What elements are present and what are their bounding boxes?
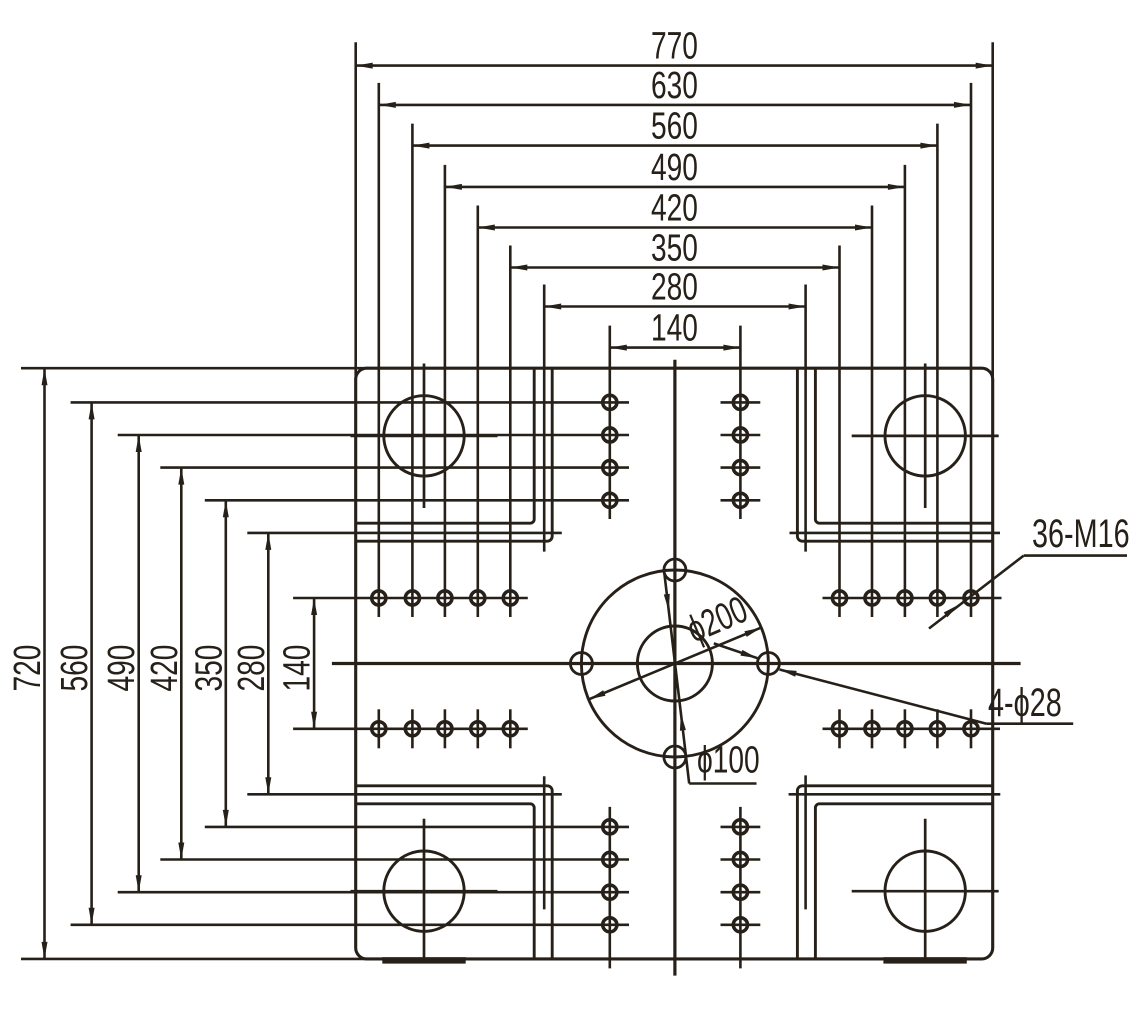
svg-text:420: 420 <box>651 188 698 230</box>
small circle E <box>757 653 779 675</box>
right group row line bottom <box>823 727 1001 730</box>
hole M16 top group right col r4 <box>721 493 761 507</box>
svg-text:630: 630 <box>651 65 698 107</box>
dimension 420 vertical label <box>144 645 186 692</box>
dimension 770 label <box>651 26 698 68</box>
corner pocket BL outline <box>356 786 553 959</box>
dimension 350 vertical <box>205 500 629 827</box>
hole M16 top group right col r3 <box>721 461 761 475</box>
svg-text:720: 720 <box>7 645 49 692</box>
dimension 280 horizontal <box>544 285 805 552</box>
corner pocket TR outline <box>797 368 992 541</box>
hole M16 right group bottom row c5 <box>964 709 978 748</box>
tie-bar hole crosshair TR <box>852 364 999 509</box>
dimension 770 horizontal <box>356 42 993 381</box>
tie-bar hole crosshair BL <box>351 819 498 964</box>
hole M16 bottom group left col r3 <box>603 885 617 899</box>
label 36-M16 text <box>1032 511 1130 556</box>
hole M16 bottom group left col r1 <box>603 820 617 834</box>
hole M16 right group bottom row c2 <box>865 709 879 748</box>
svg-text:280: 280 <box>651 267 698 309</box>
hole M16 left group bottom row c1 <box>372 709 386 748</box>
label 4-D28 text <box>988 680 1062 725</box>
vertical centerline <box>673 360 676 976</box>
dimension 280 vertical label <box>231 645 273 692</box>
tie-bar hole circle BL <box>384 851 464 931</box>
dimension 280 vertical <box>247 533 562 794</box>
tie-bar hole crosshair TL <box>351 364 498 509</box>
foot tab bottom-right <box>883 957 966 963</box>
tie-bar hole circle TR <box>885 396 965 476</box>
svg-text:350: 350 <box>651 228 698 270</box>
hole M16 left group bottom row c2 <box>405 709 419 748</box>
dimension 490 vertical <box>118 435 629 892</box>
svg-text:4-ϕ28: 4-ϕ28 <box>988 680 1062 725</box>
dimension D200 diameter line <box>589 628 762 700</box>
dimension 350 vertical label <box>188 645 230 692</box>
dimension 140 label <box>651 308 698 350</box>
tie-bar hole circle BR <box>885 851 965 931</box>
label 36-M16 leader <box>929 556 1127 629</box>
svg-text:140: 140 <box>651 308 698 350</box>
svg-text:560: 560 <box>54 645 96 692</box>
horizontal centerline <box>332 662 1021 665</box>
center hole D100 <box>637 626 712 701</box>
svg-text:420: 420 <box>144 645 186 692</box>
dimension 420 horizontal <box>478 206 872 618</box>
pocket centerline stub TR horizontal <box>790 532 1001 535</box>
svg-text:490: 490 <box>101 645 143 692</box>
small circle N <box>664 559 686 581</box>
svg-text:490: 490 <box>651 147 698 189</box>
right group row line top <box>823 597 1002 600</box>
svg-text:140: 140 <box>277 645 319 692</box>
locating ring circle D200 bolt circle <box>581 570 768 757</box>
small circle W <box>570 653 592 675</box>
dimension 490 label <box>651 147 698 189</box>
dimension 630 label <box>651 65 698 107</box>
hole M16 right group bottom row c1 <box>832 709 846 748</box>
hole M16 right group bottom row c4 <box>930 709 944 748</box>
dimension 720 vertical <box>21 368 370 959</box>
svg-text:ϕ100: ϕ100 <box>697 740 760 782</box>
dimension 420 label <box>651 188 698 230</box>
dimension 490 vertical label <box>101 645 143 692</box>
svg-text:350: 350 <box>188 645 230 692</box>
svg-text:36-M16: 36-M16 <box>1032 511 1130 556</box>
hole M16 bottom group right col r1 <box>721 820 761 834</box>
hole M16 top group left col r1 <box>603 395 617 409</box>
hole M16 top group left col r3 <box>603 461 617 475</box>
dimension 140 vertical label <box>277 645 319 692</box>
hole M16 right group top row c2 <box>865 591 879 605</box>
svg-text:770: 770 <box>651 26 698 68</box>
hole M16 left group top row c1 <box>372 591 386 605</box>
pocket centerline stub BL <box>543 776 546 909</box>
hole M16 bottom group left col r4 <box>603 918 617 932</box>
foot tab bottom-left <box>382 957 465 963</box>
hole M16 bottom group right col r4 <box>721 918 761 932</box>
hole M16 right group top row c3 <box>898 591 912 605</box>
hole M16 right group bottom row c3 <box>898 709 912 748</box>
dimension 560 vertical <box>71 402 629 924</box>
corner pocket TL outline <box>356 368 553 541</box>
hole M16 left group top row c4 <box>471 591 485 605</box>
label 4-D28 leader <box>714 643 1073 723</box>
tie-bar hole crosshair BR <box>852 819 999 964</box>
hole M16 left group top row c2 <box>405 591 419 605</box>
dimension 490 horizontal <box>445 165 905 617</box>
hole M16 left group top row c3 <box>438 591 452 605</box>
hole M16 left group top row c5 <box>503 591 517 605</box>
dimension 280 label <box>651 267 698 309</box>
hole M16 bottom group right col r2 <box>721 852 761 866</box>
bottom group column line left <box>608 807 611 969</box>
hole M16 top group right col r1 <box>721 395 761 409</box>
small circle S <box>664 746 686 768</box>
hole M16 left group bottom row c3 <box>438 709 452 748</box>
hole M16 right group top row c5 <box>964 591 978 605</box>
pocket centerline stub BR horizontal <box>789 793 1001 796</box>
dimension 420 vertical <box>160 468 629 860</box>
hole M16 top group right col r2 <box>721 428 761 442</box>
dimension 140 horizontal <box>610 326 741 519</box>
hole M16 right group top row c4 <box>930 591 944 605</box>
svg-text:560: 560 <box>651 106 698 148</box>
hole M16 bottom group left col r2 <box>603 852 617 866</box>
hole M16 top group left col r2 <box>603 428 617 442</box>
hole M16 right group top row c1 <box>832 591 846 605</box>
pocket centerline stub BR <box>804 775 807 909</box>
dimension D100 line <box>664 572 757 784</box>
dimension 720 vertical label <box>7 645 49 692</box>
dimension 560 horizontal <box>412 124 937 617</box>
dimension 630 horizontal <box>379 83 971 617</box>
svg-text:280: 280 <box>231 645 273 692</box>
dimension 560 vertical label <box>54 645 96 692</box>
hole M16 left group bottom row c5 <box>503 709 517 748</box>
hole M16 top group left col r4 <box>603 493 617 507</box>
dimension 350 label <box>651 228 698 270</box>
tie-bar hole circle TL <box>384 396 464 476</box>
dimension D100 label <box>697 740 760 782</box>
dimension 140 vertical <box>293 598 528 729</box>
hole M16 bottom group right col r3 <box>721 885 761 899</box>
dimension 350 horizontal <box>510 246 839 618</box>
plate outline <box>356 368 993 959</box>
dimension 560 label <box>651 106 698 148</box>
hole M16 left group bottom row c4 <box>471 709 485 748</box>
corner pocket BR outline <box>797 786 992 959</box>
bottom group column line right <box>739 807 742 969</box>
dimension D200 label <box>681 589 754 652</box>
